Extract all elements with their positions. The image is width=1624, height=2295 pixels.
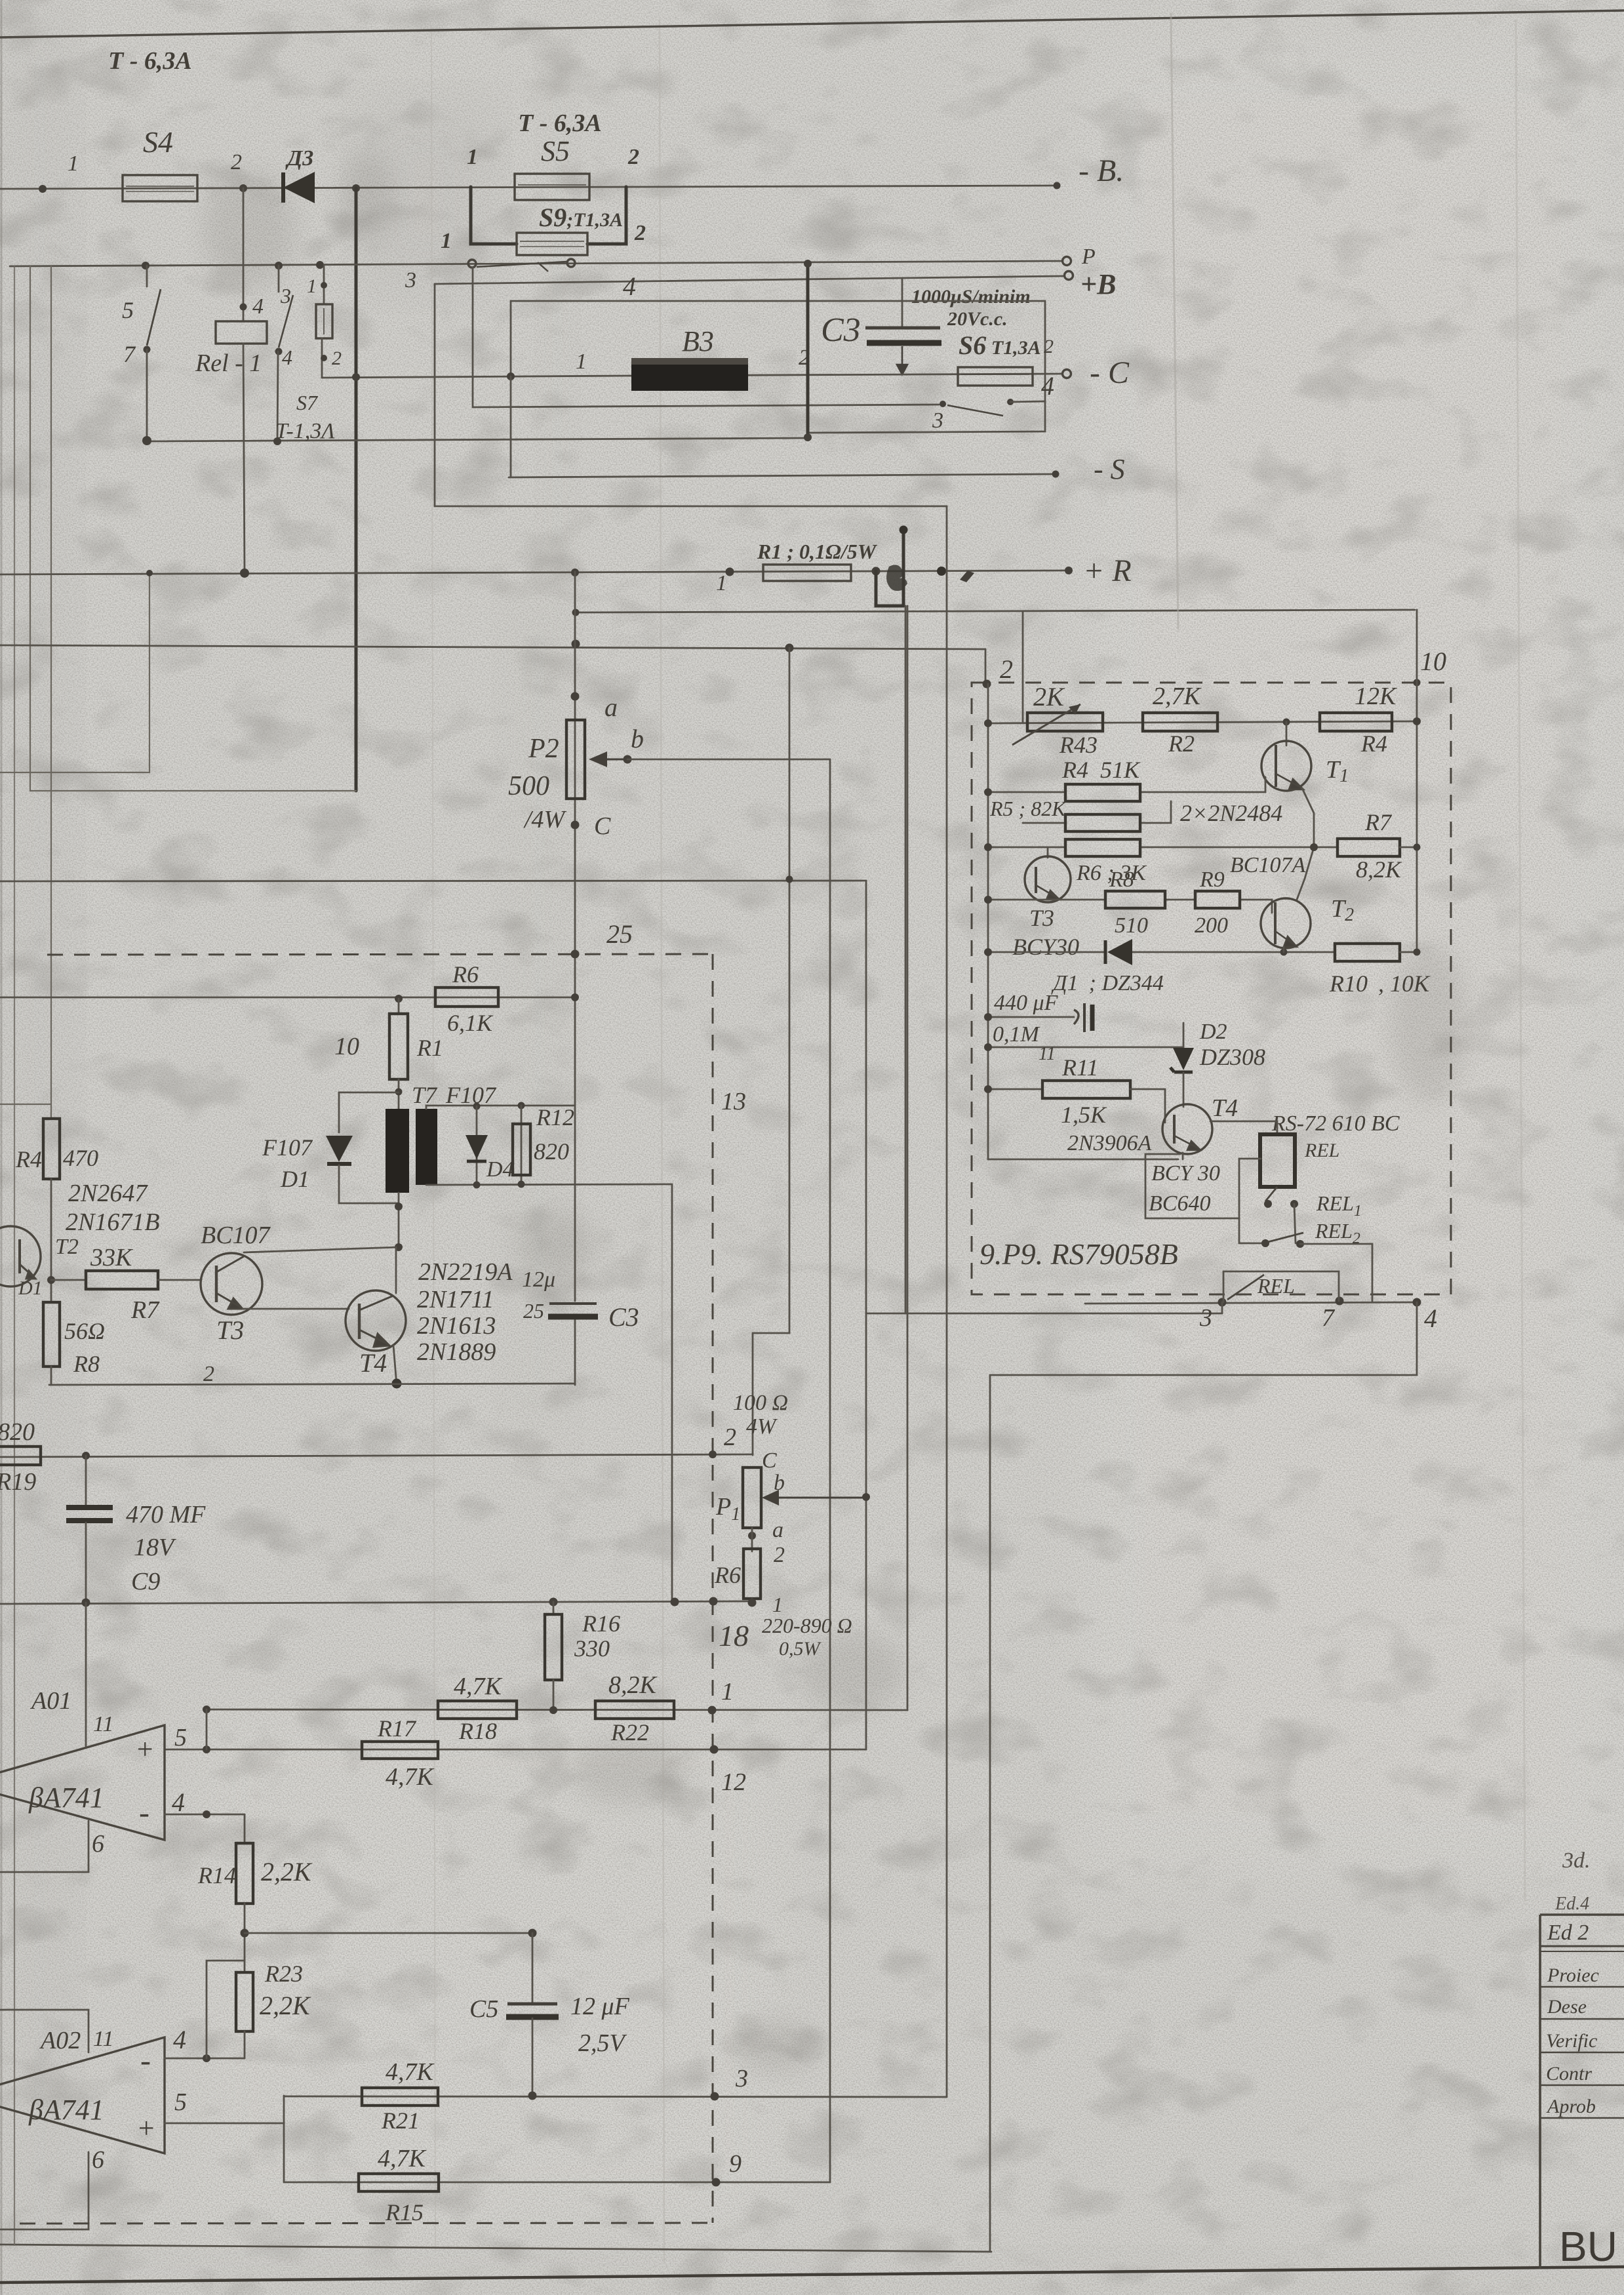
dashed bottom boundary bbox=[20, 2223, 713, 2224]
svg-text:1: 1 bbox=[307, 275, 317, 297]
svg-text:BCY30: BCY30 bbox=[1012, 934, 1079, 960]
wire S5/S9 parallel loop bbox=[471, 187, 626, 244]
page top border line bbox=[0, 10, 1624, 37]
resistor R11 1,5K bbox=[984, 1054, 1165, 1128]
svg-text:1: 1 bbox=[772, 1593, 783, 1616]
svg-text:6: 6 bbox=[92, 1830, 104, 1858]
svg-text:REL: REL bbox=[1257, 1274, 1295, 1298]
resistor R7 8,2K bbox=[1337, 809, 1421, 883]
svg-text:6: 6 bbox=[92, 2146, 104, 2174]
svg-text:Proiec: Proiec bbox=[1547, 1965, 1599, 1986]
svg-text:S4: S4 bbox=[143, 125, 173, 159]
svg-text:4W: 4W bbox=[746, 1414, 778, 1439]
resistor R8 56ohm bbox=[43, 1302, 105, 1385]
svg-text:R1: R1 bbox=[416, 1035, 443, 1061]
svg-text:/4W: /4W bbox=[523, 806, 567, 833]
svg-text:440 μF: 440 μF bbox=[994, 991, 1059, 1015]
wire D3 to -C rail (bold vertical) bbox=[355, 188, 358, 791]
svg-text:DZ308: DZ308 bbox=[1199, 1044, 1265, 1070]
svg-text:13: 13 bbox=[721, 1088, 746, 1115]
svg-text:2N1671B: 2N1671B bbox=[66, 1208, 160, 1236]
wire b-net to the right bbox=[627, 759, 830, 2182]
wire top link to subckt bbox=[576, 610, 1415, 612]
svg-text:1: 1 bbox=[467, 145, 478, 169]
svg-text:R8: R8 bbox=[1109, 868, 1134, 892]
svg-text:βA741: βA741 bbox=[28, 2094, 104, 2126]
svg-text:7: 7 bbox=[1322, 1304, 1336, 1332]
svg-text:- B.: - B. bbox=[1079, 153, 1124, 188]
wire +R rail bbox=[0, 570, 1069, 574]
svg-text:D1: D1 bbox=[280, 1166, 309, 1192]
label -B terminal bbox=[1054, 182, 1061, 190]
svg-text:1: 1 bbox=[721, 1678, 734, 1706]
wire bold stub to hook bbox=[876, 571, 903, 606]
svg-text:R6: R6 bbox=[452, 961, 479, 988]
wire P rail bbox=[10, 261, 1062, 266]
relay contact REL1 bbox=[1264, 1187, 1362, 1243]
svg-text:T2: T2 bbox=[55, 1235, 79, 1259]
svg-text:S5: S5 bbox=[541, 135, 570, 167]
svg-text:R11: R11 bbox=[1061, 1054, 1098, 1081]
svg-text:T - 6,3A: T - 6,3A bbox=[108, 47, 192, 75]
transistor T1 bbox=[1261, 722, 1349, 791]
wire rail y1342 bbox=[0, 881, 866, 881]
svg-text:R451K: R451K bbox=[1061, 757, 1141, 783]
terminal +B bbox=[1065, 271, 1073, 280]
svg-text:2×2N2484: 2×2N2484 bbox=[1180, 800, 1282, 826]
svg-text:10: 10 bbox=[334, 1033, 359, 1060]
resistor R23 2,2K bbox=[236, 1961, 311, 2058]
svg-text:a: a bbox=[604, 692, 618, 722]
wire node-9 row y3328 bbox=[284, 2182, 830, 2184]
wire A02 pin5 out bbox=[165, 2123, 284, 2182]
svg-text:T7F107: T7F107 bbox=[412, 1082, 497, 1108]
wire node-1 row y2608 bbox=[207, 1709, 907, 1710]
relay REL-1 coil bbox=[195, 188, 267, 572]
svg-text:9.P9. RS79058B: 9.P9. RS79058B bbox=[980, 1237, 1178, 1271]
svg-text:2,5V: 2,5V bbox=[578, 2029, 627, 2057]
svg-text:- S: - S bbox=[1094, 453, 1125, 485]
svg-text:R1 ; 0,1Ω/5W: R1 ; 0,1Ω/5W bbox=[757, 540, 878, 563]
op-amp A01 bbox=[0, 1603, 187, 1872]
svg-text:R18: R18 bbox=[458, 1718, 497, 1744]
svg-text:25: 25 bbox=[606, 919, 633, 949]
transistor T3 BC107 bbox=[201, 1222, 271, 1345]
svg-text:3: 3 bbox=[280, 284, 291, 308]
wire T3 collector row bbox=[244, 1247, 399, 1252]
svg-text:C9: C9 bbox=[131, 1568, 160, 1595]
svg-text:D2: D2 bbox=[1199, 1020, 1227, 1044]
svg-text:5: 5 bbox=[174, 2088, 187, 2116]
wire left loop x24 bbox=[14, 266, 15, 2245]
wire A01 out pin4 bbox=[165, 1814, 245, 1816]
wire R4-R8 column bbox=[50, 1179, 52, 1302]
svg-text:470: 470 bbox=[63, 1145, 98, 1171]
wire subckt left rail bbox=[987, 684, 989, 1159]
svg-text:25: 25 bbox=[523, 1299, 544, 1323]
smudge blobs bbox=[203, 151, 1469, 2072]
resistor R15 4,7K bbox=[359, 2145, 439, 2225]
wire contact row 3-4 bbox=[473, 268, 939, 407]
svg-text:4: 4 bbox=[173, 2025, 186, 2054]
svg-text:4,7K: 4,7K bbox=[386, 2058, 435, 2086]
svg-text:4: 4 bbox=[1041, 371, 1054, 401]
svg-text:4: 4 bbox=[282, 346, 292, 369]
resistor R21 4,7K bbox=[362, 2058, 438, 2134]
svg-text:P2: P2 bbox=[528, 734, 559, 764]
node dots on +R bbox=[240, 569, 249, 578]
diode D4 bbox=[465, 1106, 514, 1184]
driver BC640 bracket bbox=[1145, 1154, 1261, 1218]
resistor R2 2,7K bbox=[1143, 683, 1218, 757]
wire stub top R43 bbox=[1022, 611, 1024, 723]
potentiometer P1 bbox=[715, 1391, 865, 1567]
wire oscillator feed y1522 bbox=[0, 997, 575, 999]
svg-text:820: 820 bbox=[0, 1418, 35, 1446]
diode D1 (subckt) bbox=[1051, 939, 1164, 995]
svg-text:4,7K: 4,7K bbox=[386, 1763, 435, 1791]
svg-text:8,2K: 8,2K bbox=[608, 1671, 658, 1699]
svg-text:1: 1 bbox=[716, 571, 727, 595]
wire left loop x46 bbox=[30, 266, 356, 791]
svg-text:12: 12 bbox=[721, 1768, 746, 1796]
svg-text:S7: S7 bbox=[296, 391, 319, 414]
svg-text:18: 18 bbox=[719, 1619, 749, 1652]
svg-text:330: 330 bbox=[574, 1635, 610, 1662]
wire secondary top row bbox=[426, 1106, 575, 1109]
svg-text:BCY 30: BCY 30 bbox=[1151, 1161, 1220, 1186]
svg-text:BC107A: BC107A bbox=[1230, 853, 1305, 877]
svg-text:0,1M: 0,1M bbox=[993, 1022, 1040, 1047]
dashed boundary horizontal y1456 bbox=[47, 954, 711, 955]
svg-text:5: 5 bbox=[122, 297, 134, 323]
fuse S4 bbox=[68, 47, 242, 201]
svg-text:T3: T3 bbox=[216, 1315, 244, 1345]
svg-text:12K: 12K bbox=[1355, 683, 1397, 710]
svg-text:500: 500 bbox=[508, 771, 549, 801]
svg-text:2: 2 bbox=[231, 150, 242, 174]
svg-text:4,7K: 4,7K bbox=[454, 1673, 503, 1700]
wire relay row bbox=[147, 438, 808, 441]
node bold blob at R1 output bbox=[886, 565, 974, 591]
svg-text:P: P bbox=[1081, 245, 1096, 269]
svg-text:Contr: Contr bbox=[1546, 2063, 1592, 2085]
svg-text:C: C bbox=[762, 1448, 777, 1473]
SECTION-LOWLEFT bbox=[0, 606, 1222, 2229]
paper creases bbox=[660, 20, 664, 2262]
svg-text:a: a bbox=[772, 1518, 783, 1542]
svg-text:200: 200 bbox=[1195, 913, 1228, 938]
svg-text:7: 7 bbox=[123, 341, 136, 367]
svg-text:100 Ω: 100 Ω bbox=[733, 1391, 788, 1415]
wire +B segment bbox=[435, 276, 1063, 284]
svg-text:20Vc.c.: 20Vc.c. bbox=[947, 308, 1008, 330]
svg-text:4: 4 bbox=[172, 1787, 185, 1817]
svg-text:T4: T4 bbox=[359, 1348, 387, 1378]
svg-text:R6: R6 bbox=[714, 1562, 741, 1588]
wire rail4 y1372 bbox=[988, 900, 1272, 913]
svg-text:1: 1 bbox=[576, 349, 587, 374]
svg-text:R2: R2 bbox=[1168, 730, 1195, 757]
svg-text:2N1613: 2N1613 bbox=[417, 1312, 496, 1340]
svg-text:-: - bbox=[140, 2043, 151, 2078]
wire node row y982 bbox=[0, 645, 985, 649]
resistor R16 330 bbox=[545, 1602, 620, 1710]
SECTION-TOP bbox=[0, 47, 1130, 2245]
svg-text:A02: A02 bbox=[39, 2027, 81, 2054]
svg-text:BC107: BC107 bbox=[201, 1222, 271, 1249]
resistor R6 6,1K bbox=[435, 961, 498, 1036]
svg-text:Ed 2: Ed 2 bbox=[1547, 1921, 1589, 1945]
svg-text:4,7K: 4,7K bbox=[378, 2145, 427, 2172]
svg-text:3: 3 bbox=[932, 409, 943, 433]
svg-text:11: 11 bbox=[1039, 1044, 1056, 1064]
svg-text:+: + bbox=[136, 2112, 156, 2144]
wire rail5 y1452 bbox=[988, 951, 1335, 953]
svg-text:3: 3 bbox=[405, 268, 416, 292]
svg-text:Aprob: Aprob bbox=[1546, 2096, 1596, 2117]
svg-text:+: + bbox=[135, 1733, 155, 1765]
wire vertical x1204 to P1 bbox=[753, 648, 789, 1455]
svg-text:-: - bbox=[139, 1795, 149, 1830]
fold line right bbox=[1171, 13, 1178, 629]
diode D1 F107 with bracket bbox=[262, 1092, 399, 1203]
svg-text:R17: R17 bbox=[377, 1715, 417, 1742]
svg-text:2N1889: 2N1889 bbox=[417, 1338, 496, 1366]
resistor R4b 51K row1 bbox=[1061, 757, 1141, 801]
svg-text:220-890 Ω: 220-890 Ω bbox=[762, 1614, 852, 1637]
svg-text:11: 11 bbox=[93, 1712, 113, 1736]
resistor R19 820 (clipped) bbox=[0, 1418, 41, 1496]
node 10 entry bbox=[1414, 679, 1421, 687]
wire R14-R23 node row bbox=[244, 1904, 246, 1972]
svg-text:+ R: + R bbox=[1083, 553, 1132, 588]
wire R1 to transformer bbox=[398, 1079, 400, 1109]
svg-text:2N1711: 2N1711 bbox=[417, 1286, 494, 1313]
resistor R8 510 bbox=[1105, 868, 1165, 938]
svg-text:2: 2 bbox=[627, 145, 639, 169]
node 2 entry bbox=[985, 649, 987, 684]
svg-text:2K: 2K bbox=[1033, 682, 1065, 711]
wire -C rail bbox=[322, 376, 629, 378]
wire B3 secondary loop bbox=[511, 301, 1045, 401]
transistor T3 (subckt) bbox=[1012, 847, 1079, 960]
resistor R7 33K bbox=[51, 1244, 201, 1324]
svg-text:R7: R7 bbox=[1364, 809, 1393, 835]
wire REL link y2003 bbox=[866, 1313, 1222, 1315]
wire bold vertical x1378 bbox=[902, 529, 905, 606]
svg-text:1,5K: 1,5K bbox=[1061, 1102, 1107, 1128]
transistor T4 (subckt) bbox=[1067, 1094, 1238, 1155]
svg-text:4: 4 bbox=[252, 294, 264, 319]
svg-text:10: 10 bbox=[1420, 647, 1446, 676]
svg-text:12 μF: 12 μF bbox=[570, 1993, 630, 2020]
wire node-12 row y2668 (A01 +input) bbox=[165, 1749, 866, 1751]
resistor R17 4,7K bbox=[362, 1715, 438, 1791]
svg-text:2,7K: 2,7K bbox=[1153, 683, 1202, 710]
svg-text:F107: F107 bbox=[262, 1134, 313, 1161]
capacitor C9 470MF bbox=[66, 1456, 206, 1603]
svg-text:8,2K: 8,2K bbox=[1356, 856, 1402, 883]
capacitor C3 (filter) bbox=[821, 278, 941, 374]
node bold vertical P-to-668 bbox=[806, 264, 810, 438]
svg-text:3d.: 3d. bbox=[1562, 1848, 1591, 1873]
svg-text:BU: BU bbox=[1559, 2223, 1617, 2270]
transformer T7 bbox=[386, 1082, 497, 1247]
svg-text:BC640: BC640 bbox=[1149, 1191, 1210, 1216]
resistor R1 (osc) 10 bbox=[334, 999, 443, 1079]
resistor R12 820 bbox=[513, 1104, 574, 1184]
capacitor C3 (osc) bbox=[522, 1267, 639, 1332]
svg-text:Ed.4: Ed.4 bbox=[1555, 1894, 1589, 1914]
svg-text:C: C bbox=[594, 812, 611, 840]
svg-text:b: b bbox=[631, 724, 644, 753]
svg-text:2: 2 bbox=[1044, 336, 1054, 357]
terminal -C bbox=[1063, 370, 1071, 378]
relay coil (subckt) bbox=[1210, 1121, 1339, 1187]
wire vertical x1321 (b/REL link) bbox=[865, 881, 867, 1749]
svg-text:4: 4 bbox=[623, 271, 636, 301]
capacitor C5 12uF bbox=[469, 1933, 630, 2096]
SECTION-SUBCKT bbox=[203, 13, 1525, 2252]
svg-text:RS-72 610 BC: RS-72 610 BC bbox=[1271, 1111, 1400, 1136]
svg-text:R12: R12 bbox=[536, 1104, 574, 1130]
wire T1-T2 collector column bbox=[1297, 788, 1314, 900]
dashed box preamp unit bbox=[972, 683, 1451, 1294]
resistor R1 0.1ohm bbox=[716, 540, 878, 595]
svg-text:R43: R43 bbox=[1059, 732, 1098, 758]
svg-text:1000μS/minim: 1000μS/minim bbox=[911, 286, 1031, 308]
svg-text:2,2K: 2,2K bbox=[261, 1857, 313, 1886]
svg-text:2: 2 bbox=[1000, 654, 1013, 684]
potentiometer R43 2K bbox=[1012, 682, 1103, 758]
title block text bbox=[1546, 1848, 1617, 2270]
svg-text:3: 3 bbox=[735, 2065, 748, 2092]
svg-text:3: 3 bbox=[1199, 1304, 1212, 1332]
svg-text:56Ω: 56Ω bbox=[64, 1318, 105, 1344]
svg-text:2: 2 bbox=[774, 1543, 785, 1567]
fuse S7 vertical bbox=[275, 265, 342, 443]
svg-text:T4: T4 bbox=[1212, 1094, 1238, 1122]
svg-text:1: 1 bbox=[68, 151, 79, 176]
wire oscillator bottom rail bbox=[49, 1384, 575, 1385]
wire rail9 T4 emitter bbox=[988, 1159, 1178, 1161]
svg-text:2N3906A: 2N3906A bbox=[1067, 1131, 1152, 1155]
svg-text:R14: R14 bbox=[197, 1862, 236, 1888]
svg-text:A01: A01 bbox=[30, 1687, 71, 1715]
wire contact4 return bbox=[808, 401, 1045, 433]
wire rail7 0,1M bbox=[984, 1022, 1183, 1064]
svg-text:- C: - C bbox=[1090, 355, 1130, 390]
svg-text:βA741: βA741 bbox=[28, 1782, 104, 1814]
svg-text:R8: R8 bbox=[73, 1351, 100, 1377]
svg-text:T-1,3Λ: T-1,3Λ bbox=[275, 419, 335, 443]
svg-text:2,2K: 2,2K bbox=[260, 1991, 311, 2020]
svg-text:33K: 33K bbox=[90, 1244, 133, 1271]
wire node-3 row y3196 bbox=[284, 2096, 947, 2097]
svg-text:D1: D1 bbox=[18, 1277, 43, 1299]
svg-text:R9: R9 bbox=[1199, 868, 1225, 892]
resistor R14 2,2K bbox=[197, 1814, 313, 1904]
svg-text:2: 2 bbox=[724, 1424, 736, 1451]
contact 5-7 (mains switch) bbox=[122, 266, 161, 445]
transistor T4 bbox=[346, 1290, 406, 1378]
svg-text:Д1; DZ344: Д1; DZ344 bbox=[1051, 971, 1164, 995]
wire center vertical x877 bbox=[571, 569, 579, 576]
svg-text:T3: T3 bbox=[1029, 905, 1054, 931]
svg-text:9: 9 bbox=[729, 2150, 742, 2178]
wire rail1 y1101 bbox=[988, 721, 1417, 723]
wire S rail bbox=[510, 376, 512, 477]
wire subckt right vertical bbox=[1416, 610, 1418, 953]
svg-text:Rel - 1: Rel - 1 bbox=[195, 349, 262, 377]
svg-text:Verific: Verific bbox=[1546, 2030, 1597, 2052]
svg-text:+B: +B bbox=[1080, 268, 1116, 300]
resistor R10 10K bbox=[1329, 944, 1431, 997]
switch S6 bypass contact 3-4 bbox=[932, 371, 1054, 433]
svg-text:D4: D4 bbox=[486, 1157, 514, 1182]
node on -B rail left bbox=[39, 185, 47, 193]
fuse S6 bbox=[958, 330, 1054, 386]
transistor T2 (clipped left) bbox=[0, 1226, 79, 1299]
wire bottom loop bbox=[990, 1302, 1417, 2252]
svg-text:1: 1 bbox=[441, 229, 452, 253]
SECTION-MID bbox=[0, 506, 1415, 2223]
rectifier B3 bbox=[576, 271, 810, 391]
svg-text:R4: R4 bbox=[1360, 730, 1387, 757]
svg-text:b: b bbox=[774, 1471, 785, 1495]
wire rail2 y1208 + T1 base link bbox=[988, 777, 1265, 792]
wire left box x78 bbox=[50, 266, 52, 1119]
svg-text:R16: R16 bbox=[582, 1610, 620, 1637]
node junction D3 cathode bbox=[352, 184, 360, 192]
svg-text:R5 ; 82K: R5 ; 82K bbox=[989, 797, 1067, 820]
resistor row3 R6 3K bbox=[984, 839, 1337, 885]
zener D2 DZ308 bbox=[1170, 1020, 1265, 1107]
svg-text:2: 2 bbox=[634, 221, 646, 245]
svg-text:4: 4 bbox=[1424, 1304, 1437, 1333]
wire vertical x1381 long bbox=[905, 606, 907, 1313]
svg-text:470 MF: 470 MF bbox=[126, 1501, 206, 1528]
wire T4 collector/emitter column bbox=[395, 1247, 397, 1293]
title block frame bbox=[1540, 1915, 1624, 2269]
svg-text:R15: R15 bbox=[385, 2199, 424, 2225]
node junction S4-2 bbox=[239, 184, 247, 192]
resistor R4 470 bbox=[15, 1119, 160, 1236]
svg-text:R21: R21 bbox=[381, 2107, 420, 2134]
capacitor 440uF bbox=[984, 991, 1092, 1032]
switch S9 contact bbox=[468, 259, 575, 271]
svg-text:C3: C3 bbox=[821, 311, 861, 349]
wire A02 pin4 row bbox=[165, 2058, 245, 2060]
wire vertical x1444 long bbox=[946, 506, 948, 2097]
wire +B box bbox=[435, 284, 947, 506]
resistor R4 12K bbox=[1320, 683, 1397, 757]
svg-text:T - 6,3A: T - 6,3A bbox=[518, 110, 602, 137]
svg-text:5: 5 bbox=[174, 1724, 187, 1751]
op-amp A02 bbox=[0, 2010, 187, 2229]
svg-text:C5: C5 bbox=[469, 1995, 498, 2023]
svg-text:820: 820 bbox=[534, 1138, 569, 1165]
svg-text:2N2647: 2N2647 bbox=[68, 1180, 148, 1207]
resistor R18 4,7K bbox=[438, 1673, 517, 1744]
wire rail y2443 bbox=[0, 1601, 754, 1604]
resistor R6 (dummy load) bbox=[714, 1528, 852, 1660]
svg-text:C3: C3 bbox=[608, 1302, 639, 1332]
fuse S5 bbox=[467, 110, 639, 200]
svg-text:11: 11 bbox=[93, 2027, 113, 2051]
wire box x228 bbox=[0, 572, 149, 772]
